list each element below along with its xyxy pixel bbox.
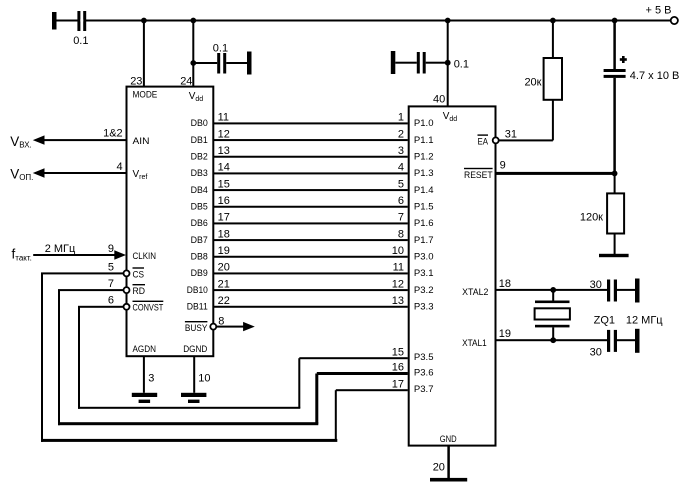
svg-text:2: 2: [398, 128, 404, 140]
capacitor C3 0.1 plates: [417, 52, 420, 74]
svg-text:14: 14: [218, 162, 230, 174]
svg-text:P1.3: P1.3: [414, 168, 434, 178]
svg-text:13: 13: [218, 145, 230, 157]
svg-text:DB4: DB4: [191, 185, 208, 195]
svg-text:8: 8: [398, 228, 404, 240]
svg-text:P1.2: P1.2: [414, 152, 434, 162]
wire pin 24 Vdd: [192, 21, 194, 87]
svg-text:P1.7: P1.7: [414, 235, 434, 245]
svg-text:+ 5 В: + 5 В: [646, 5, 672, 17]
svg-text:MODE: MODE: [133, 90, 158, 100]
arrow Vref: [33, 168, 45, 177]
svg-text:20: 20: [433, 461, 445, 473]
wire pin 23 MODE: [143, 21, 145, 87]
svg-text:BUSY: BUSY: [185, 323, 208, 333]
capacitor C3 0.1 ground bar: [391, 51, 396, 74]
svg-text:17: 17: [218, 212, 230, 224]
svg-text:P3.6: P3.6: [414, 367, 434, 377]
wire data bus DB3 to P1.3: [214, 172, 408, 174]
microcontroller U2 body: [409, 106, 496, 445]
wire RESET node to R2: [614, 173, 616, 193]
wire data bus DB8 to P3.0: [214, 256, 408, 258]
svg-text:DB7: DB7: [191, 235, 208, 245]
capacitor C2 0.1 wire: [193, 62, 217, 64]
svg-text:3: 3: [398, 145, 404, 157]
svg-text:RD: RD: [133, 286, 146, 296]
svg-text:31: 31: [505, 129, 517, 141]
svg-text:DB2: DB2: [191, 151, 208, 161]
wire RD to P3.6 loop: [58, 289, 123, 291]
capacitor C2 0.1 plates: [217, 53, 220, 74]
svg-text:DB0: DB0: [191, 118, 208, 128]
capacitor C5 ground bar: [635, 329, 640, 353]
svg-text:0.1: 0.1: [73, 35, 88, 47]
node rail-R1 junction: [550, 18, 556, 24]
wire CONVST to P3.5 loop: [78, 306, 123, 308]
svg-text:P3.2: P3.2: [414, 285, 434, 295]
svg-text:RESET: RESET: [464, 170, 493, 180]
wire R2 to ground: [614, 234, 616, 255]
capacitor C3 wire to pin40: [426, 62, 448, 64]
svg-text:20к: 20к: [524, 76, 541, 88]
svg-text:DB6: DB6: [191, 218, 208, 228]
svg-text:15: 15: [392, 346, 404, 358]
pin bubble BUSY: [210, 324, 216, 330]
node pin24-C2 junction: [190, 60, 196, 66]
op-amp / ADC U1 body: [127, 87, 214, 357]
node rail-pin24 junction: [190, 18, 196, 24]
svg-text:DGND: DGND: [183, 344, 208, 354]
pin bubble CS: [124, 270, 130, 276]
wire pin 40 Vdd: [447, 21, 449, 107]
resistor R2 120к body: [607, 193, 624, 233]
pin bubble RD: [124, 287, 130, 293]
svg-text:2 МГц: 2 МГц: [45, 243, 76, 255]
capacitor C3 wire from ground bar: [395, 62, 417, 64]
wire data bus DB9 to P3.1: [214, 272, 408, 274]
svg-text:22: 22: [218, 295, 230, 307]
capacitor C4 ground bar: [635, 279, 640, 303]
capacitor C4 wire to ground bar: [617, 289, 635, 291]
wire data bus DB6 to P1.6: [214, 222, 408, 224]
svg-text:P3.0: P3.0: [414, 252, 434, 262]
svg-text:AGDN: AGDN: [133, 344, 157, 354]
wire XTAL1: [496, 339, 607, 341]
svg-text:CS: CS: [133, 269, 145, 279]
wire XTAL2: [496, 289, 607, 291]
wire C6 to RESET node: [613, 78, 616, 173]
svg-text:19: 19: [218, 245, 230, 257]
svg-text:12: 12: [392, 278, 404, 290]
svg-text:GND: GND: [440, 434, 457, 444]
wire +5V rail: [55, 20, 671, 22]
svg-text:DB11: DB11: [187, 301, 208, 311]
wire GND pin 20: [447, 446, 450, 479]
svg-text:DB3: DB3: [191, 168, 208, 178]
svg-text:VВХ.: VВХ.: [10, 134, 32, 150]
pin bubble CONVST: [124, 304, 130, 310]
arrow BUSY: [243, 322, 255, 331]
svg-text:P1.5: P1.5: [414, 202, 434, 212]
svg-text:5: 5: [108, 261, 114, 273]
svg-text:DB8: DB8: [191, 251, 208, 261]
svg-text:3: 3: [148, 373, 154, 385]
capacitor C6 polarity +: [620, 58, 627, 61]
wire data bus DB11 to P3.3: [214, 306, 408, 308]
wire AGDN to ground: [143, 356, 145, 393]
wire data bus DB5 to P1.5: [214, 206, 408, 208]
wire rail to R1: [552, 21, 554, 59]
svg-text:30: 30: [590, 347, 602, 359]
svg-text:10: 10: [198, 373, 210, 385]
svg-text:30: 30: [590, 279, 602, 291]
arrow CLKIN: [114, 250, 126, 259]
svg-text:1&2: 1&2: [103, 128, 123, 140]
svg-text:4: 4: [398, 162, 404, 174]
svg-text:120к: 120к: [580, 211, 603, 223]
wire data bus DB1 to P1.1: [214, 139, 408, 141]
wire data bus DB2 to P1.2: [214, 156, 408, 158]
wire R1 to EA: [552, 100, 554, 141]
ground DGND: [181, 393, 206, 397]
svg-text:0.1: 0.1: [213, 42, 228, 54]
svg-text:4: 4: [117, 161, 123, 173]
wire DGND to ground: [193, 356, 195, 393]
wire rail to C6: [613, 21, 616, 70]
svg-text:DB5: DB5: [191, 201, 208, 211]
capacitor C2 ground bar: [247, 52, 252, 75]
svg-text:10: 10: [392, 245, 404, 257]
svg-text:DB1: DB1: [191, 135, 208, 145]
svg-text:18: 18: [499, 278, 511, 290]
crystal ZQ1: [552, 290, 554, 301]
resistor R1 20к body: [544, 58, 562, 100]
svg-text:1: 1: [398, 112, 404, 124]
svg-text:P1.4: P1.4: [414, 185, 434, 195]
wire CS to P3.7 loop: [41, 272, 123, 274]
wire Vref input: [44, 172, 126, 174]
svg-text:21: 21: [218, 278, 230, 290]
svg-text:fтакт.: fтакт.: [12, 246, 32, 262]
svg-text:P1.1: P1.1: [414, 135, 434, 145]
wire data bus DB4 to P1.4: [214, 189, 408, 191]
svg-text:6: 6: [398, 195, 404, 207]
svg-text:DB9: DB9: [191, 268, 208, 278]
node rail-pin23 junction: [141, 18, 147, 24]
capacitor C2 wire to ground bar: [226, 62, 247, 64]
svg-text:VОП.: VОП.: [10, 166, 33, 182]
svg-text:P3.5: P3.5: [414, 352, 434, 362]
svg-text:15: 15: [218, 178, 230, 190]
svg-text:4.7 x 10 В: 4.7 x 10 В: [630, 70, 680, 82]
svg-text:ЕА: ЕА: [478, 137, 489, 147]
svg-text:13: 13: [392, 295, 404, 307]
svg-text:7: 7: [398, 212, 404, 224]
node rail-pin40 junction: [445, 18, 451, 24]
node rail-C6 junction: [612, 18, 618, 24]
svg-text:19: 19: [499, 328, 511, 340]
svg-text:9: 9: [108, 243, 114, 255]
capacitor C1 0.1 plates: [77, 11, 80, 31]
capacitor C4 30 plates: [607, 280, 610, 302]
ground AGDN: [132, 393, 157, 397]
svg-text:7: 7: [108, 278, 114, 290]
svg-text:DB10: DB10: [187, 285, 208, 295]
svg-text:ZQ1: ZQ1: [594, 314, 615, 326]
wire data bus DB7 to P1.7: [214, 239, 408, 241]
svg-text:40: 40: [433, 93, 445, 105]
node XTAL2-crystal junction: [550, 287, 556, 293]
wire CLKIN clock input: [33, 254, 115, 256]
wire BUSY output: [216, 326, 244, 328]
wire data bus DB10 to P3.2: [214, 289, 408, 291]
+5V terminal: [671, 17, 678, 24]
svg-text:16: 16: [218, 195, 230, 207]
svg-text:P3.7: P3.7: [414, 384, 434, 394]
wire RESET: [496, 172, 614, 175]
svg-text:17: 17: [392, 378, 404, 390]
capacitor C1 0.1 ground bar: [52, 12, 57, 30]
svg-text:P3.3: P3.3: [414, 302, 434, 312]
capacitor C6 plates: [604, 69, 626, 72]
wire data bus DB0 to P1.0: [214, 122, 408, 124]
svg-text:20: 20: [218, 262, 230, 274]
svg-text:P3.1: P3.1: [414, 268, 434, 278]
svg-text:P1.6: P1.6: [414, 218, 434, 228]
svg-text:AIN: AIN: [133, 136, 150, 146]
svg-text:11: 11: [393, 262, 404, 274]
svg-text:9: 9: [500, 160, 506, 172]
svg-text:8: 8: [218, 315, 224, 327]
svg-text:XTAL2: XTAL2: [462, 287, 488, 297]
svg-text:CONVST: CONVST: [133, 303, 164, 313]
svg-text:11: 11: [218, 112, 229, 124]
wire AIN input: [44, 139, 126, 141]
svg-text:12: 12: [218, 128, 230, 140]
svg-text:P1.0: P1.0: [414, 118, 434, 128]
node XTAL1-crystal junction: [550, 337, 556, 343]
ground R2: [599, 254, 629, 257]
node RESET-R2 junction: [612, 171, 618, 177]
svg-text:16: 16: [392, 362, 404, 374]
capacitor C5 30 plates: [607, 330, 610, 352]
svg-text:5: 5: [398, 178, 404, 190]
svg-text:12 МГц: 12 МГц: [626, 314, 663, 326]
svg-text:6: 6: [108, 295, 114, 307]
node pin40-C3 junction: [445, 60, 451, 66]
svg-text:0.1: 0.1: [454, 59, 469, 71]
svg-text:CLKIN: CLKIN: [133, 251, 157, 261]
svg-text:18: 18: [218, 228, 230, 240]
arrow AIN: [33, 135, 45, 144]
pin bubble EA: [493, 137, 499, 143]
svg-text:XTAL1: XTAL1: [462, 338, 487, 348]
svg-text:24: 24: [180, 75, 192, 87]
ground GND: [430, 478, 467, 482]
svg-text:23: 23: [130, 75, 142, 87]
capacitor C5 wire to ground bar: [617, 339, 635, 341]
